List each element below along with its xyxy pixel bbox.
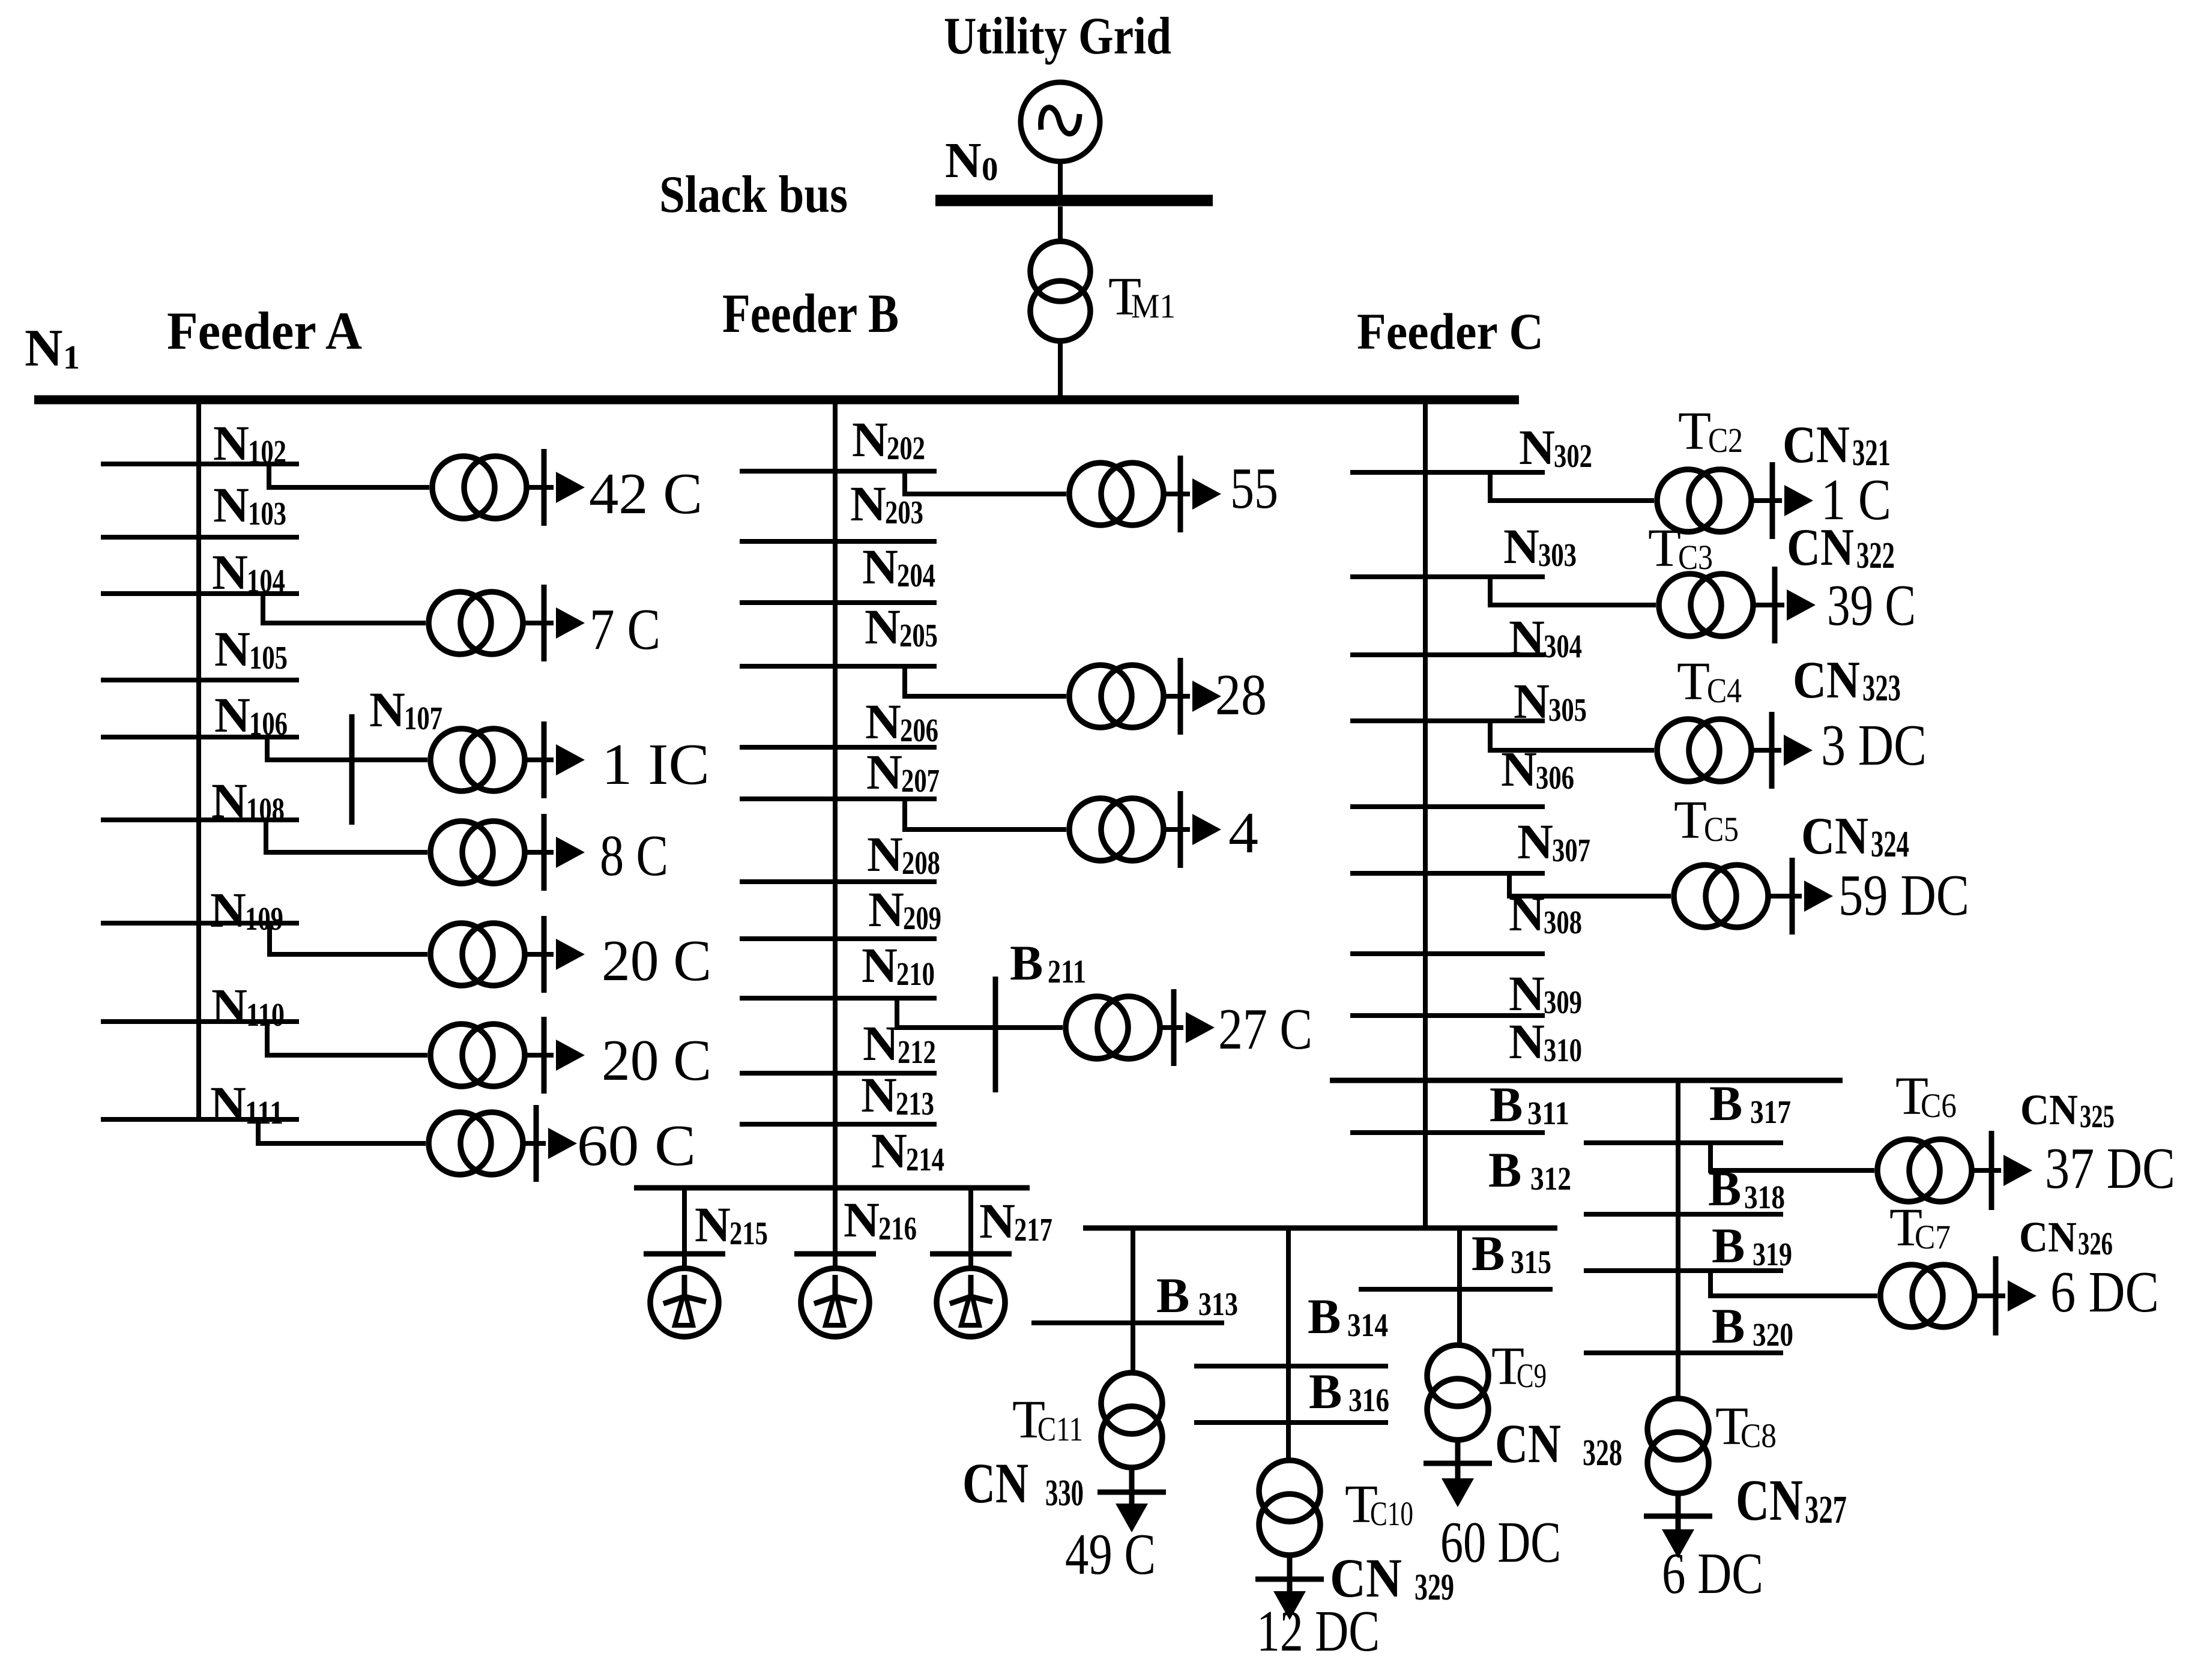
svg-text:318: 318 (1744, 1179, 1785, 1215)
transformer for 27 C load (1066, 996, 1160, 1059)
label N109 (210, 882, 283, 938)
svg-text:8 C: 8 C (600, 823, 668, 888)
label N214 (871, 1123, 944, 1178)
svg-text:4: 4 (1228, 801, 1258, 865)
svg-text:B: B (1712, 1298, 1745, 1353)
B317 column line (1676, 1080, 1680, 1398)
svg-text:N: N (1519, 420, 1555, 475)
label CN321 (1783, 416, 1891, 474)
load label TC8 (1662, 1541, 1763, 1606)
label CN327 (1736, 1468, 1847, 1533)
transformer for 6 DC load (TC7) (1880, 1265, 1975, 1327)
feeder A bus segment 2 (101, 535, 299, 540)
load bus bar for 3 DC load (TC4) (1754, 712, 1781, 789)
svg-text:CN: CN (1495, 1413, 1561, 1474)
svg-text:N: N (1509, 610, 1545, 665)
svg-text:313: 313 (1198, 1286, 1238, 1322)
label Slack bus (659, 166, 848, 224)
svg-text:B: B (1708, 1161, 1741, 1216)
feeder B bus segment 8 (740, 936, 937, 941)
svg-text:322: 322 (1856, 535, 1895, 576)
svg-text:310: 310 (1544, 1032, 1582, 1068)
svg-text:B: B (1712, 1218, 1745, 1273)
svg-text:N: N (844, 1192, 880, 1247)
load bus bar for TC10 (1255, 1555, 1324, 1596)
label TC7 (1889, 1198, 1951, 1257)
svg-text:214: 214 (906, 1141, 944, 1178)
svg-text:T: T (1678, 402, 1711, 461)
load arrow 27 C load (1186, 1012, 1215, 1043)
load arrow 59 DC load (TC5) (1804, 881, 1833, 912)
wind turbine WT2 (N216) (801, 1268, 869, 1337)
load label 20 C load (N109) (602, 929, 711, 993)
svg-text:C3: C3 (1678, 538, 1713, 577)
svg-text:N: N (212, 544, 248, 600)
svg-text:302: 302 (1554, 438, 1592, 474)
svg-text:319: 319 (1753, 1236, 1792, 1272)
svg-text:317: 317 (1750, 1094, 1791, 1130)
load arrow TC10 (1273, 1591, 1306, 1620)
svg-text:305: 305 (1548, 691, 1587, 728)
wind turbine WT3 (N217) (937, 1268, 1005, 1337)
B317 column bus segment 2 (1584, 1212, 1783, 1217)
label N308 (1509, 886, 1582, 941)
wire tap for 59 DC load (TC5) (1509, 873, 1671, 896)
load label 1 C load (TC2) (1821, 468, 1891, 532)
load label TC9 (1440, 1510, 1561, 1574)
feeder B bus segment 5 (740, 745, 937, 750)
svg-text:N: N (1501, 741, 1537, 796)
B314 column line (1286, 1228, 1291, 1461)
svg-text:Feeder B: Feeder B (722, 283, 899, 344)
label TM1 (1108, 267, 1176, 327)
bus B311/B317 tie line (1330, 1078, 1843, 1083)
load bus bar for 20 C load (N110) (527, 1017, 554, 1094)
load bus bar for 1 IC load (527, 721, 554, 798)
transformer for 55 load (1069, 463, 1164, 525)
feeder B bus segment 1 (740, 469, 937, 474)
svg-text:C9: C9 (1517, 1357, 1547, 1395)
label N103 (213, 477, 286, 532)
svg-text:Utility Grid: Utility Grid (944, 7, 1171, 65)
load label 55 load (1230, 456, 1278, 520)
svg-text:327: 327 (1805, 1488, 1847, 1532)
label N110 (211, 978, 285, 1034)
svg-text:B: B (1472, 1226, 1505, 1281)
load arrow 1 IC load (556, 744, 585, 775)
wire tap for 27 C load (897, 998, 1063, 1028)
label Utility Grid (944, 7, 1171, 65)
transformer TC8 (1647, 1398, 1709, 1493)
feeder B lower bus (634, 1185, 1030, 1191)
label CN322 (1787, 519, 1895, 577)
label N215 (695, 1197, 768, 1252)
label N305 (1514, 673, 1587, 729)
svg-text:109: 109 (245, 900, 283, 937)
svg-text:202: 202 (887, 430, 925, 466)
wire tap for 7 C load (263, 594, 426, 623)
svg-text:N: N (213, 415, 249, 471)
transformer for 7 C load (429, 592, 523, 654)
svg-text:C11: C11 (1037, 1411, 1083, 1448)
label CN326 (2019, 1213, 2113, 1262)
transformer for 1 IC load (430, 729, 525, 791)
label B211 (1010, 935, 1086, 990)
transformer for 1 C load (TC2) (1657, 469, 1751, 532)
label N104 (212, 544, 285, 600)
load bus bar for 28 load (1166, 658, 1190, 735)
B317 column bus segment 3 (1584, 1268, 1783, 1273)
label N307 (1517, 814, 1590, 869)
svg-text:N: N (871, 1123, 907, 1178)
svg-text:211: 211 (1048, 953, 1086, 990)
transformer for 4 load (1069, 798, 1164, 861)
svg-text:323: 323 (1862, 668, 1901, 709)
svg-text:CN: CN (1330, 1547, 1402, 1609)
feeder B main line (833, 400, 838, 1188)
load label 42 C load (589, 462, 702, 526)
svg-text:1 IC: 1 IC (602, 732, 710, 796)
label B317 (1709, 1076, 1791, 1131)
bus B313 tie line (1083, 1226, 1557, 1231)
wire tap for 28 load (905, 666, 1066, 696)
wire tap for 20 C load (N109) (270, 923, 427, 954)
svg-text:N: N (865, 694, 901, 749)
svg-text:111: 111 (245, 1094, 283, 1131)
svg-text:CN: CN (2020, 1086, 2078, 1134)
svg-text:N: N (867, 826, 903, 882)
label Feeder B (722, 283, 899, 344)
svg-text:N: N (1509, 1014, 1545, 1069)
label Feeder A (167, 302, 362, 361)
feeder B bus segment 6 (740, 796, 937, 801)
label B311 (1490, 1077, 1569, 1132)
svg-text:20 C: 20 C (602, 929, 711, 993)
feeder A bus segment 9 (101, 1117, 299, 1122)
svg-text:27 C: 27 C (1218, 997, 1312, 1061)
label TC9 (1491, 1337, 1547, 1396)
transformer for 60 C load (429, 1112, 523, 1175)
load bus bar for 60 C load (525, 1105, 546, 1182)
wire and bus bar for WT1 (N215) (644, 1188, 725, 1270)
svg-text:1: 1 (63, 339, 80, 376)
load bus bar for 8 C load (527, 814, 554, 891)
main bus N1 (34, 396, 1519, 405)
wire tap for 1 IC load (267, 737, 427, 760)
svg-text:C6: C6 (1921, 1087, 1957, 1125)
feeder C bus segment 5 (1350, 804, 1545, 809)
svg-text:T: T (1674, 790, 1707, 850)
load label 60 C load (577, 1113, 696, 1178)
svg-text:106: 106 (249, 705, 288, 742)
label CN328 (1495, 1413, 1622, 1474)
svg-text:207: 207 (901, 762, 940, 799)
load label 4 load (1228, 801, 1258, 865)
wire tap for 3 DC load (TC4) (1490, 721, 1654, 750)
feeder C bus segment 8 (1350, 1013, 1545, 1018)
label B313 (1156, 1268, 1238, 1323)
load label TC11 (1065, 1522, 1156, 1586)
svg-text:103: 103 (248, 495, 286, 532)
svg-text:N: N (211, 773, 247, 828)
svg-text:C5: C5 (1704, 810, 1739, 849)
svg-text:205: 205 (899, 617, 938, 654)
wire tap for 20 C load (N110) (267, 1022, 427, 1055)
label TC6 (1895, 1067, 1957, 1126)
label CN325 (2020, 1086, 2115, 1134)
load bus bar for 1 C load (TC2) (1754, 462, 1782, 539)
transformer for 42 C load (432, 456, 527, 519)
svg-text:N: N (862, 938, 898, 993)
svg-text:C2: C2 (1708, 421, 1743, 460)
transformer TC9 (1427, 1345, 1488, 1440)
svg-text:B: B (1490, 1077, 1523, 1132)
svg-text:N: N (865, 599, 901, 654)
B317 column bus segment 1 (1584, 1140, 1783, 1145)
svg-text:CN: CN (1801, 807, 1868, 866)
feeder B bus segment 7 (740, 879, 937, 884)
svg-text:312: 312 (1530, 1160, 1571, 1197)
label B319 (1712, 1218, 1792, 1273)
svg-text:N: N (210, 882, 246, 938)
load arrow TC9 (1442, 1478, 1474, 1507)
label B312 (1488, 1142, 1571, 1197)
label N306 (1501, 741, 1574, 796)
svg-text:59 DC: 59 DC (1838, 863, 1969, 927)
svg-text:104: 104 (247, 562, 285, 599)
svg-text:7 C: 7 C (590, 597, 660, 661)
svg-text:206: 206 (900, 712, 938, 748)
load label 27 C load (1218, 997, 1312, 1061)
svg-text:60 C: 60 C (577, 1113, 696, 1178)
load arrow 6 DC load (TC7) (2008, 1280, 2037, 1311)
svg-text:315: 315 (1511, 1244, 1551, 1280)
svg-text:107: 107 (404, 700, 442, 736)
load arrow 39 C load (TC3) (1787, 589, 1816, 621)
load arrow 4 load (1192, 814, 1221, 845)
svg-text:C10: C10 (1370, 1495, 1413, 1533)
feeder B bus segment 11 (740, 1122, 937, 1127)
svg-text:42 C: 42 C (589, 462, 702, 526)
svg-text:209: 209 (903, 900, 941, 936)
load arrow 20 C load (N110) (556, 1040, 585, 1071)
svg-text:320: 320 (1753, 1316, 1793, 1353)
svg-text:N: N (979, 1193, 1015, 1248)
label N0 (945, 133, 998, 188)
svg-text:CN: CN (1793, 651, 1860, 709)
feeder B bus segment 4 (740, 664, 937, 669)
load arrow 60 C load (548, 1128, 577, 1159)
svg-text:0: 0 (982, 151, 998, 187)
label TC5 (1674, 790, 1739, 850)
load bus bar for 37 DC load (TC6) (1974, 1131, 2001, 1210)
wire and bus bar for WT3 (N217) (930, 1188, 1012, 1270)
svg-text:T: T (1677, 652, 1710, 711)
label N102 (213, 415, 286, 471)
B313 column line (1131, 1228, 1135, 1374)
load bus bar for 7 C load (525, 585, 554, 661)
feeder A bus segment 1 (101, 462, 299, 466)
load arrow 20 C load (N109) (556, 939, 585, 970)
load bus bar for TC9 (1424, 1439, 1492, 1483)
svg-text:208: 208 (902, 845, 940, 881)
svg-text:N: N (1509, 886, 1545, 941)
svg-text:110: 110 (246, 996, 285, 1033)
svg-text:B: B (1309, 1364, 1342, 1419)
load label 39 C load (TC3) (1827, 573, 1916, 637)
bus bar B211 (993, 977, 998, 1092)
transformer for 37 DC load (TC6) (1877, 1139, 1972, 1202)
wire AC source to slack bus (1058, 161, 1063, 196)
B314 bus segment upper (1194, 1364, 1388, 1368)
B314 bus segment lower (1194, 1420, 1388, 1425)
transformer for 20 C load (N109) (430, 923, 525, 986)
feeder B bus segment 9 (740, 996, 937, 1001)
load label 6 DC load (TC7) (2050, 1260, 2159, 1324)
svg-text:102: 102 (248, 433, 286, 470)
svg-text:N: N (25, 319, 63, 378)
transformer for 59 DC load (TC5) (1674, 865, 1768, 927)
load label 3 DC load (TC4) (1821, 713, 1927, 777)
svg-text:28: 28 (1215, 663, 1267, 727)
load label 28 load (1215, 663, 1267, 727)
svg-text:C7: C7 (1915, 1218, 1951, 1256)
svg-text:216: 216 (878, 1210, 917, 1247)
load bus bar for TC8 (1644, 1493, 1712, 1534)
wire tap for 42 C load (269, 464, 429, 487)
svg-text:N: N (214, 687, 250, 742)
svg-text:N: N (1503, 519, 1539, 574)
load label 37 DC load (TC6) (2045, 1136, 2175, 1200)
load arrow TC8 (1662, 1529, 1694, 1558)
feeder C main line (1423, 400, 1428, 1228)
feeder C bus segment 6 (1350, 871, 1545, 876)
svg-text:C8: C8 (1741, 1417, 1777, 1455)
svg-text:N: N (210, 1076, 246, 1131)
svg-text:204: 204 (897, 557, 935, 594)
svg-text:N: N (861, 1067, 897, 1122)
load label TC10 (1257, 1599, 1380, 1663)
label B316 (1309, 1364, 1389, 1419)
svg-text:217: 217 (1014, 1211, 1052, 1248)
svg-text:105: 105 (249, 639, 288, 676)
label N213 (861, 1067, 934, 1122)
transformer TM1 (1030, 241, 1090, 341)
label CN324 (1801, 807, 1909, 866)
feeder B bus segment 3 (740, 600, 937, 605)
feeder C bus segment 3 (1350, 652, 1545, 657)
load label 20 C load (N110) (602, 1028, 711, 1092)
svg-text:B: B (1488, 1142, 1521, 1197)
label N105 (214, 621, 288, 676)
feeder A bus segment 7 (101, 921, 299, 926)
label N303 (1503, 519, 1577, 574)
load bus bar for 42 C load (529, 449, 554, 526)
transformer for 28 load (1069, 665, 1164, 727)
wire and bus bar for WT2 (N216) (794, 1188, 876, 1270)
label TC11 (1012, 1390, 1083, 1450)
svg-text:N: N (1509, 966, 1545, 1021)
label CN329 (1330, 1547, 1454, 1609)
load bus bar for 4 load (1166, 791, 1190, 868)
svg-text:303: 303 (1538, 537, 1577, 573)
transformer for 3 DC load (TC4) (1657, 719, 1751, 781)
load bus bar for 20 C load (N109) (527, 916, 554, 993)
transformer for 8 C load (430, 821, 525, 884)
svg-text:215: 215 (729, 1215, 768, 1251)
svg-text:Slack bus: Slack bus (659, 166, 848, 224)
load arrow 37 DC load (TC6) (2003, 1155, 2032, 1186)
svg-text:309: 309 (1544, 984, 1582, 1020)
label N304 (1509, 610, 1582, 665)
bus bar N107 (349, 714, 355, 825)
wind turbine WT1 (N215) (650, 1268, 719, 1337)
svg-text:6 DC: 6 DC (1662, 1541, 1763, 1606)
svg-text:306: 306 (1536, 759, 1574, 796)
load label 59 DC load (TC5) (1838, 863, 1969, 927)
load bus bar for TC11 (1098, 1467, 1166, 1508)
svg-text:N: N (868, 882, 904, 937)
load bus bar for 59 DC load (TC5) (1771, 858, 1802, 935)
svg-text:N: N (852, 412, 888, 467)
svg-text:6 DC: 6 DC (2050, 1260, 2159, 1324)
svg-text:CN: CN (1736, 1468, 1803, 1533)
feeder A bus segment 5 (101, 735, 299, 739)
wire tap for 1 C load (TC2) (1490, 472, 1654, 501)
svg-text:49 C: 49 C (1065, 1522, 1156, 1586)
B315 bus segment (1359, 1287, 1553, 1292)
svg-text:Feeder A: Feeder A (167, 302, 362, 361)
feeder A bus segment 3 (101, 591, 299, 596)
svg-text:321: 321 (1852, 433, 1891, 474)
svg-text:39 C: 39 C (1827, 573, 1916, 637)
svg-text:N: N (211, 978, 247, 1034)
svg-text:N: N (214, 621, 250, 676)
label TC2 (1678, 402, 1743, 461)
label N302 (1519, 420, 1592, 475)
wire tap for 37 DC load (TC6) (1710, 1143, 1874, 1170)
AC source G1 (utility grid) (1021, 82, 1100, 161)
svg-text:CN: CN (1783, 416, 1850, 474)
svg-text:37 DC: 37 DC (2045, 1136, 2175, 1200)
label N310 (1509, 1014, 1582, 1069)
load arrow TC11 (1116, 1504, 1148, 1532)
svg-text:326: 326 (2078, 1226, 2113, 1262)
feeder A main line (196, 400, 201, 1119)
label Feeder C (1357, 303, 1544, 360)
load label 7 C load (590, 597, 660, 661)
label N309 (1509, 966, 1582, 1021)
label N106 (214, 687, 288, 742)
svg-text:B: B (1010, 935, 1043, 990)
svg-text:60 DC: 60 DC (1440, 1510, 1561, 1574)
wire tap for 60 C load (258, 1119, 426, 1143)
label CN323 (1793, 651, 1901, 709)
svg-text:B: B (1156, 1268, 1189, 1323)
feeder C bus segment 2 (1350, 574, 1545, 579)
svg-text:CN: CN (962, 1451, 1028, 1515)
svg-text:C4: C4 (1707, 671, 1742, 710)
label TC8 (1715, 1397, 1777, 1456)
label B320 (1712, 1298, 1793, 1353)
feeder B bus segment 2 (740, 539, 937, 544)
svg-text:T: T (1648, 519, 1681, 578)
svg-text:N: N (850, 476, 886, 531)
transformer TC11 (1101, 1373, 1162, 1468)
feeder C bus segment 7 (1350, 951, 1545, 956)
transformer for 20 C load (N110) (430, 1024, 525, 1086)
svg-text:203: 203 (885, 494, 923, 531)
